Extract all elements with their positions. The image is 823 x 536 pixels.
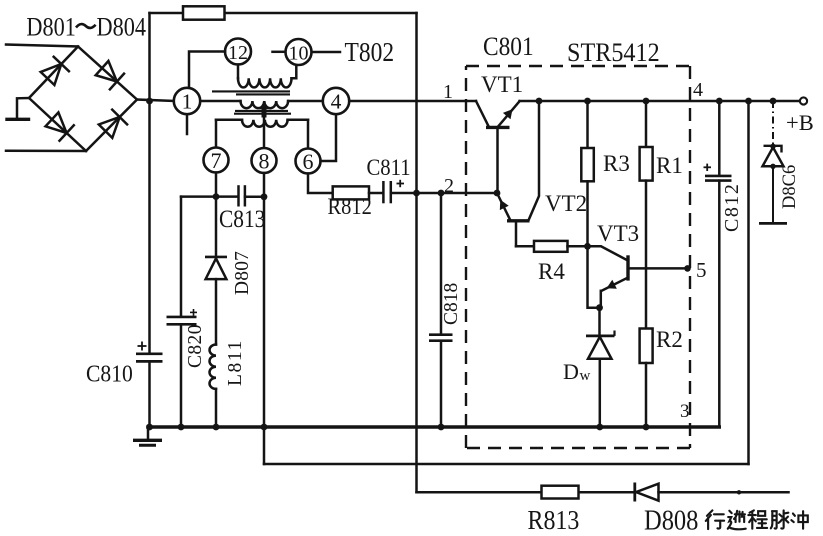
wire AC input top [6, 45, 78, 47]
diode bridge D801~D804 diamond [29, 47, 137, 152]
svg-text:VT2: VT2 [545, 191, 587, 216]
node junction VT3 emitter/Dw [596, 304, 603, 311]
transistor VT2 [497, 101, 539, 246]
transistor VT3 [588, 246, 688, 307]
node junction L811/rail [213, 424, 220, 431]
node junction return/+B rail [745, 98, 752, 105]
diode D804 (lower-right) [99, 110, 127, 138]
label C820 [185, 324, 206, 368]
resistor R3 [581, 101, 594, 246]
label D806 [780, 165, 800, 209]
core T802 upper [212, 91, 290, 94]
node junction R2/ground rail [643, 424, 650, 431]
winding T802 primary (1-4) [201, 101, 323, 108]
svg-text:1: 1 [182, 90, 193, 114]
wire +B rail [520, 100, 800, 103]
svg-text:D808: D808 [644, 504, 698, 536]
svg-text:VT1: VT1 [481, 72, 523, 97]
capacitor C812 [704, 101, 732, 427]
zener diode Dw [586, 308, 615, 427]
inductor L811 [210, 345, 217, 389]
node junction pin2/VT1-VT2 [494, 190, 501, 197]
diode D803 (lower-left) [46, 112, 74, 140]
label C811 [367, 155, 411, 180]
diode D801 (upper-left) [41, 57, 69, 85]
label pin 2 [444, 175, 454, 197]
wire ground rail [148, 425, 719, 428]
svg-text:C820: C820 [185, 324, 206, 368]
label 逆 (ni) [728, 511, 746, 530]
capacitor C810 [136, 342, 163, 362]
wire L811 to ground rail [215, 389, 218, 427]
svg-text:C801: C801 [483, 33, 534, 61]
svg-text:C818: C818 [441, 283, 462, 325]
resistor R812 [333, 186, 369, 199]
wire to D807 [215, 197, 218, 257]
label 脉 (mai) [771, 510, 789, 528]
svg-text:D: D [563, 359, 579, 384]
terminal circle 4 of T802 [323, 88, 349, 114]
resistor R4 [534, 241, 568, 252]
terminal +B open circle [800, 97, 807, 104]
capacitor C818 [429, 193, 453, 427]
wire center tap to circle 8 with arrow [259, 101, 268, 148]
svg-text:R1: R1 [656, 153, 683, 178]
svg-text:R2: R2 [656, 327, 683, 352]
node pin 5 terminal [684, 265, 691, 272]
wire secondary return line [264, 463, 749, 466]
core T802 lower [234, 111, 291, 114]
node junction pin7/C813 [213, 193, 220, 200]
svg-text:8: 8 [259, 149, 270, 174]
label Dw [563, 359, 591, 384]
label 冲 (chong) [791, 511, 807, 529]
wire D807 to L811 [215, 279, 218, 344]
svg-text:D804: D804 [97, 13, 146, 42]
label L811 [225, 339, 246, 386]
wire R812 to C811 [369, 192, 383, 195]
svg-text:1: 1 [443, 81, 453, 103]
resistor R813 [542, 486, 579, 499]
svg-text:3: 3 [680, 401, 690, 422]
wire node down to emitter node [588, 246, 600, 307]
wire bridge output to T802 pin 1 [137, 100, 174, 102]
label pin 3 [680, 401, 690, 422]
label VT1 [481, 72, 523, 97]
svg-text:4: 4 [331, 90, 342, 114]
wire left rail upper (x=150) [148, 13, 151, 353]
node junction C813/pin8 [261, 193, 268, 200]
wire VT2 base to R4 [516, 245, 534, 248]
svg-text:R4: R4 [538, 259, 565, 284]
wire secondary right end to circle 6 [307, 120, 310, 149]
node junction C818/ground rail [438, 424, 445, 431]
resistor R2 [640, 329, 653, 364]
wire startup vertical (x=416) [415, 13, 418, 492]
node junction VT2 collector/rail [536, 98, 543, 105]
terminal circle 8 of T802 [252, 148, 277, 174]
svg-text:R812: R812 [328, 194, 372, 219]
terminal circle 6 of T802 [296, 149, 321, 175]
svg-text:6: 6 [303, 149, 314, 174]
node junction C810/rail [146, 424, 153, 431]
wire circle 6 down [308, 174, 333, 194]
svg-text:w: w [580, 368, 591, 384]
wire circle 8 down to return line [263, 173, 266, 464]
svg-text:C813: C813 [219, 205, 265, 233]
node junction C812/rail [716, 98, 723, 105]
label VT2 [545, 191, 587, 216]
label C813 [219, 205, 265, 233]
IC U801 STR5412 dashed outline [466, 66, 690, 448]
diode D806 (dash-dot) [759, 101, 787, 223]
winding T802 secondary (7-8-6) [216, 120, 308, 127]
svg-text:10: 10 [289, 43, 309, 65]
wire C820 to ground rail [180, 324, 183, 427]
label pin 4 [693, 79, 703, 101]
wire circle 4 down to circle 6 [321, 115, 337, 161]
capacitor C820 [167, 309, 198, 324]
label T802 [345, 38, 395, 68]
transistor VT1 [476, 101, 520, 193]
svg-text:2: 2 [444, 175, 454, 197]
svg-text:7: 7 [211, 148, 222, 173]
label C801 [483, 33, 534, 61]
svg-text:D801: D801 [26, 13, 75, 42]
svg-text:4: 4 [693, 79, 703, 101]
wire C810 to ground rail [148, 361, 151, 427]
svg-text:T802: T802 [345, 38, 395, 68]
winding T802 primary feedback (12-10) [238, 65, 296, 88]
label 行 (hang) [706, 510, 724, 529]
label R1 [656, 153, 683, 178]
wire D808 to pulse input [659, 490, 789, 494]
svg-text:C810: C810 [86, 360, 133, 386]
wire stub below circle 1 [186, 115, 189, 134]
node junction startup/pin2 line [413, 190, 420, 197]
svg-text:C811: C811 [367, 155, 411, 180]
svg-text:STR5412: STR5412 [567, 39, 660, 67]
diode D802 (upper-right) [96, 61, 124, 89]
node junction C820/rail [178, 424, 185, 431]
label C810 [86, 360, 133, 386]
diode D807 [205, 257, 227, 279]
wire feedback line to R813 [417, 491, 635, 494]
label R2 [656, 327, 683, 352]
node junction D806/rail [770, 98, 777, 105]
label D807 [232, 251, 253, 295]
wire circle 7 down [215, 173, 218, 197]
label C812 [721, 183, 743, 232]
label C818 [441, 283, 462, 325]
diode D808 [635, 483, 659, 502]
resistor R1 [640, 101, 653, 181]
label VT3 [597, 221, 639, 246]
wire R4 to node [568, 245, 588, 248]
wire pin12 to pin1 node [189, 52, 225, 88]
wire C813 node to C820 [181, 195, 216, 198]
wire R1 to R2 [645, 181, 648, 329]
terminal circle 7 of T802 [204, 148, 229, 174]
label 程 (cheng) [748, 510, 767, 528]
node junction R1/rail [643, 98, 650, 105]
label R813 [528, 504, 580, 535]
svg-text:C812: C812 [721, 183, 743, 232]
label R812 [328, 194, 372, 219]
wire return line up to +B rail [747, 101, 750, 464]
node AC input left stub [7, 98, 29, 119]
svg-text:L811: L811 [225, 339, 246, 386]
wire C811 to pin 2 of STR5412 [391, 192, 497, 195]
svg-text:+B: +B [786, 110, 814, 135]
svg-text:R3: R3 [603, 151, 630, 176]
node junction R3/R4/VT3 base [584, 243, 591, 250]
wire top startup line [150, 12, 417, 15]
wire stub left of circle 10 [273, 51, 284, 54]
svg-text:12: 12 [228, 42, 248, 64]
terminal circle 12 of T802 [225, 39, 251, 65]
capacitor C813 [216, 185, 264, 206]
label R3 [603, 151, 630, 176]
label +B [786, 110, 814, 135]
node junction R3/rail [584, 98, 591, 105]
label R4 [538, 259, 565, 284]
wire secondary left end to circle 7 [215, 120, 218, 148]
capacitor C811 [383, 180, 404, 204]
svg-text:R813: R813 [528, 504, 580, 535]
label D808 [644, 504, 698, 536]
wire C820 top [180, 197, 183, 317]
wire R2 to ground rail [645, 363, 648, 427]
svg-text:5: 5 [696, 258, 707, 282]
svg-text:D807: D807 [232, 251, 253, 295]
label STR5412 [567, 39, 660, 67]
svg-text:D8C6: D8C6 [780, 165, 800, 209]
svg-text:VT3: VT3 [597, 221, 639, 246]
wire AC input bottom [6, 149, 86, 152]
wire circle 10 to label T802 [312, 51, 340, 54]
label pin 1 [443, 81, 453, 103]
label D801~D804 [26, 13, 146, 42]
terminal circle 1 of T802 [174, 88, 200, 114]
resistor R811 (startup, top) [183, 6, 225, 19]
node junction C818/pin2 line [438, 190, 445, 197]
terminal circle 10 of T802 [286, 39, 312, 65]
node junction Dw/ground rail [596, 424, 603, 431]
label pin 5 [696, 258, 707, 282]
ground symbol [133, 427, 162, 445]
node junction bridge output [146, 98, 153, 105]
wire T802 pin4 to VT1 base [350, 100, 477, 103]
node junction pin8/ground rail [261, 424, 268, 431]
